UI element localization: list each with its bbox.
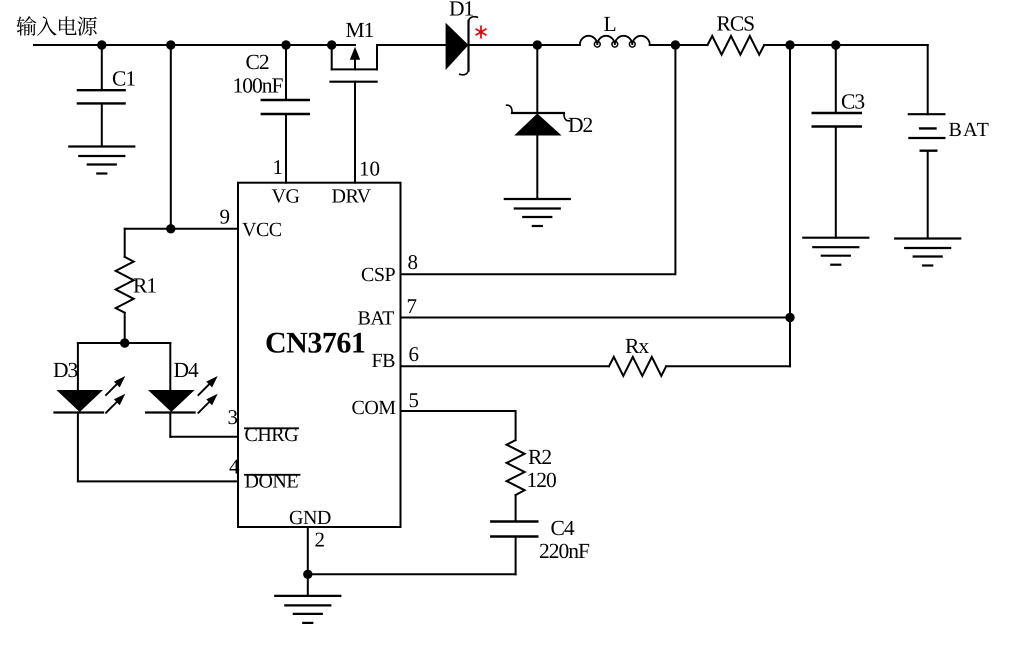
svg-text:VCC: VCC [242, 219, 282, 241]
wire L to RCS [650, 44, 708, 46]
resistor RCS [708, 12, 765, 55]
svg-text:DRV: DRV [332, 186, 372, 208]
battery BAT [909, 45, 990, 239]
node dot D2 node [533, 40, 542, 49]
diode D2 (schottky to ground) [507, 45, 593, 199]
svg-text:R2: R2 [528, 445, 551, 469]
LED D3 [53, 343, 125, 481]
svg-text:L: L [604, 12, 616, 36]
ground (D2) [505, 199, 570, 226]
LED D4 [146, 343, 218, 437]
node dot C3 tap [831, 40, 840, 49]
svg-text:BAT: BAT [358, 308, 395, 330]
svg-text:CN3761: CN3761 [265, 327, 365, 360]
svg-text:R1: R1 [133, 274, 156, 298]
node 输入电源 input power label [17, 16, 97, 36]
svg-text:7: 7 [407, 294, 418, 318]
svg-text:220nF: 220nF [539, 539, 590, 563]
svg-text:FB: FB [372, 350, 396, 372]
svg-text:M1: M1 [346, 18, 374, 42]
resistor Rx [401, 334, 791, 376]
node dot C2 tap [281, 40, 290, 49]
svg-text:10: 10 [359, 157, 380, 181]
svg-text:CHRG: CHRG [245, 424, 299, 446]
svg-text:C3: C3 [841, 90, 864, 114]
svg-text:COM: COM [352, 397, 397, 419]
wire D1 to L [469, 44, 580, 46]
svg-text:D2: D2 [568, 113, 593, 137]
svg-text:2: 2 [315, 528, 326, 552]
wire pin 7 BAT [401, 317, 791, 319]
svg-text:4: 4 [229, 455, 240, 479]
node dot VCC riser tap [166, 40, 175, 49]
node dot VCC tap [166, 224, 175, 233]
wire RCS to BAT [764, 44, 928, 46]
wire CSP riser [401, 45, 676, 274]
svg-text:6: 6 [409, 342, 420, 366]
svg-text:Rx: Rx [625, 334, 649, 358]
wire VCC riser [170, 45, 172, 229]
ground (GND) [275, 596, 340, 623]
svg-text:D4: D4 [174, 358, 200, 382]
svg-text:VG: VG [272, 186, 300, 208]
svg-text:3: 3 [228, 405, 239, 429]
ground (BAT) [895, 239, 960, 266]
transistor M1 (PMOS) [331, 18, 378, 183]
svg-text:RCS: RCS [717, 12, 755, 36]
wire pin 3 CHRG [170, 436, 238, 438]
wire pin 2 GND [307, 527, 309, 596]
capacitor C1 [78, 45, 135, 147]
node dot L-RCS node [671, 40, 680, 49]
node dot RCS right node [785, 40, 794, 49]
resistor R1 [116, 229, 157, 343]
svg-text:D1: D1 [449, 0, 474, 21]
svg-text:BAT: BAT [949, 119, 991, 141]
diode D1 (schottky) [446, 0, 478, 75]
svg-text:CSP: CSP [361, 264, 395, 286]
wire M1 drain to D1 [377, 44, 446, 46]
node dot LED rail tap [120, 338, 129, 347]
node dot BAT node [785, 313, 794, 322]
svg-text:DONE: DONE [245, 471, 299, 493]
capacitor C2 [233, 45, 309, 183]
wire pin 9 VCC [125, 228, 238, 230]
wire C4 to GND node [308, 573, 516, 575]
capacitor C4 [491, 516, 590, 574]
wire LED rail [78, 342, 170, 344]
svg-text:1: 1 [273, 155, 284, 179]
svg-text:GND: GND [289, 507, 331, 529]
wire top rail left [34, 44, 355, 46]
node dot C1 tap [97, 40, 106, 49]
capacitor C3 [813, 45, 865, 238]
svg-text:9: 9 [220, 205, 231, 229]
svg-text:C2: C2 [246, 50, 269, 74]
svg-text:120: 120 [527, 468, 557, 492]
svg-text:100nF: 100nF [233, 74, 284, 98]
red asterisk [476, 26, 487, 39]
resistor R2 [507, 440, 556, 521]
op-amp U1 CN3761 IC body [238, 183, 401, 527]
svg-text:5: 5 [409, 388, 420, 412]
inductor L [580, 12, 650, 47]
svg-text:8: 8 [408, 250, 419, 274]
wire pin 4 DONE [78, 480, 238, 482]
wire BAT riser [789, 45, 791, 366]
svg-text:D3: D3 [53, 358, 78, 382]
node dot GND node [303, 570, 312, 579]
ground (C1) [69, 147, 134, 174]
node dot M1 source [327, 40, 336, 49]
wire pin 5 COM [401, 411, 516, 440]
ground (C3) [803, 238, 868, 265]
svg-text:C1: C1 [112, 67, 135, 91]
svg-text:C4: C4 [551, 516, 575, 540]
